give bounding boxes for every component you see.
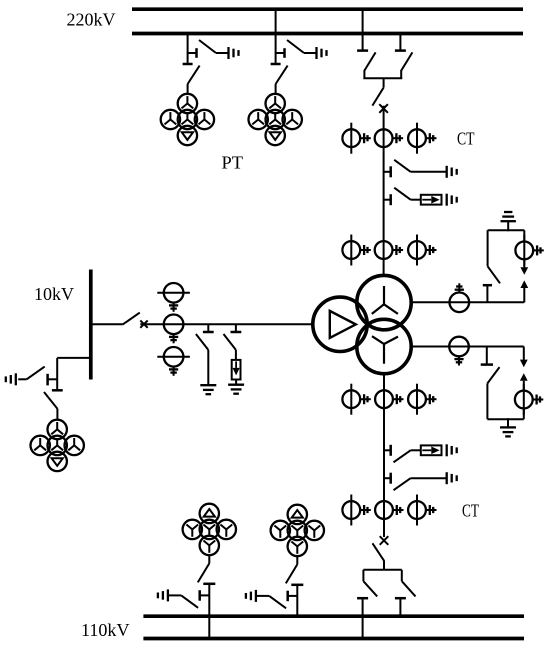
label CT (110kV side) bbox=[462, 501, 479, 521]
ground F3 bbox=[228, 385, 244, 394]
circuit breaker QF3 bbox=[140, 320, 147, 327]
wire gap to CT (MV) bbox=[523, 381, 525, 390]
wire ES9 to ground bbox=[168, 594, 181, 596]
current transformer CT1b bbox=[375, 129, 403, 147]
wire QS6 to junction bbox=[383, 560, 385, 570]
disconnector QS9 blade bbox=[198, 563, 210, 582]
wire PT1 drop from bus W2 bbox=[187, 34, 189, 65]
protective gap upper arrow bbox=[520, 267, 528, 275]
transformer T1 MV wye symbol bbox=[372, 336, 398, 364]
current transformer CT3b bbox=[375, 390, 403, 408]
surge arrester F2 bbox=[421, 445, 442, 455]
wire 110kV feeder main bbox=[383, 374, 385, 537]
wire PT2 drop from bus W1 bbox=[275, 9, 277, 64]
wire ES3 to ground bbox=[411, 171, 447, 173]
earthing switch ES4 contact bbox=[384, 194, 391, 205]
ground ES7 bbox=[447, 444, 457, 456]
voltage transformer PT4 bbox=[271, 505, 324, 556]
transformer T1 HV wye symbol bbox=[372, 286, 398, 314]
bus 220kV W1 bbox=[132, 7, 523, 11]
wire PT4 stem bbox=[296, 556, 298, 564]
transformer T1 LV winding circle bbox=[313, 297, 367, 351]
current transformer CT5b bbox=[164, 315, 184, 344]
wire loop top (HV neutral) bbox=[488, 229, 525, 231]
wire PT4 to bus W3 bbox=[296, 585, 298, 617]
current transformer CT4a bbox=[342, 495, 370, 526]
earthing switch ES1 blade bbox=[199, 40, 216, 53]
current transformer CT3c bbox=[408, 384, 436, 415]
svg-text:110kV: 110kV bbox=[81, 620, 130, 640]
earthing switch ES13 blade bbox=[27, 367, 45, 380]
earthing switch ES9 blade bbox=[181, 595, 198, 607]
ground ES9 bbox=[158, 589, 168, 601]
disconnector QS5 blade bbox=[372, 88, 383, 106]
svg-text:10kV: 10kV bbox=[34, 284, 74, 304]
ground HV neutral bbox=[501, 212, 516, 231]
wire QS3 to junction bbox=[363, 70, 365, 79]
transformer T1 HV winding circle bbox=[357, 275, 411, 329]
disconnector QS3 blade bbox=[364, 52, 375, 70]
svg-text:CT: CT bbox=[457, 129, 475, 149]
bus 110kV W3 bbox=[143, 614, 524, 618]
disconnector QS9 contact bar bbox=[203, 583, 215, 586]
earthing switch ES11 contact bbox=[203, 324, 214, 332]
surge arrester F1 bbox=[421, 195, 442, 205]
disconnector QS8 contact bar bbox=[395, 597, 406, 600]
svg-text:CT: CT bbox=[462, 501, 479, 521]
neutral CT (HV) bbox=[450, 283, 470, 312]
wire loop right upper bbox=[523, 230, 525, 241]
wire MV neutral bbox=[411, 346, 524, 348]
disconnector QS8 blade bbox=[402, 581, 416, 596]
earthing switch ES10 blade bbox=[269, 596, 286, 608]
wire HV neutral bbox=[411, 301, 524, 303]
wire QS1 to PT1 bbox=[187, 84, 189, 94]
disconnector QS1 blade bbox=[188, 66, 200, 84]
neutral CT (MV) bbox=[449, 337, 469, 366]
disconnector QS10 contact bar bbox=[291, 584, 303, 587]
bus 110kV W4 bbox=[143, 637, 524, 641]
wire stub to bus W3 bbox=[399, 598, 401, 616]
voltage transformer PT5 bbox=[31, 420, 84, 471]
wire junction bar bbox=[363, 77, 402, 79]
wire PT3 stem bbox=[208, 555, 210, 563]
earthing switch ES3 contact bbox=[384, 166, 391, 177]
current transformer CT2c bbox=[408, 235, 436, 266]
transformer T1 MV winding circle bbox=[357, 319, 411, 373]
earthing switch ES11 blade bbox=[196, 334, 208, 350]
wire junction bar (110kV) bbox=[363, 569, 401, 571]
wire PT3 to buses bbox=[208, 584, 210, 639]
disconnector QS3 contact bar bbox=[357, 49, 368, 52]
label PT bbox=[222, 153, 244, 173]
wire stub from bus W2 bbox=[399, 34, 401, 51]
disconnector QS12 blade bbox=[44, 392, 57, 409]
earthing switch ES6 blade bbox=[487, 367, 499, 383]
wire loop left (HV neutral) bbox=[487, 230, 489, 266]
wire loop left (MV neutral) bbox=[486, 383, 488, 419]
disconnector QS4 contact bar bbox=[395, 49, 406, 52]
wire ES7 to arrester bbox=[411, 449, 421, 451]
earthing switch ES12 contact bbox=[231, 324, 242, 332]
current transformer CT4b bbox=[375, 501, 403, 519]
wire ES4 to arrester bbox=[411, 199, 421, 201]
disconnector QS7 contact bar bbox=[357, 597, 368, 600]
current transformer CT2b bbox=[375, 241, 403, 259]
svg-text:PT: PT bbox=[222, 153, 244, 173]
disconnector QS2 contact bar bbox=[271, 63, 281, 66]
current transformer CT3a bbox=[342, 384, 370, 415]
ground MV neutral bbox=[500, 418, 516, 436]
ground ES3 bbox=[447, 166, 457, 178]
wire 10kV main bbox=[140, 323, 313, 325]
wire CT to loop bottom (MV) bbox=[523, 409, 525, 419]
circuit breaker QF2 bbox=[380, 536, 389, 545]
protective gap lower arrow bbox=[520, 280, 528, 288]
ground ES10 bbox=[246, 590, 256, 602]
earthing switch ES8 blade bbox=[394, 478, 411, 490]
wire ES11 to ground bbox=[207, 350, 209, 385]
label CT (220kV side) bbox=[457, 129, 475, 149]
current transformer CT1a bbox=[342, 123, 370, 154]
voltage transformer PT3 bbox=[183, 504, 236, 555]
wire bus W5 to QS11 bbox=[91, 323, 123, 325]
gap CT (MV neutral) bbox=[515, 384, 543, 415]
protective gap lower arrow (MV) bbox=[520, 373, 528, 381]
protective gap upper arrow (MV) bbox=[520, 360, 528, 368]
disconnector QS11 blade bbox=[123, 313, 140, 325]
wire ES13 to ground bbox=[18, 378, 26, 380]
disconnector QS4 blade bbox=[401, 52, 412, 70]
ground ES4 bbox=[447, 194, 457, 206]
disconnector QS1 contact bar bbox=[183, 63, 193, 66]
wire ES12 to arrester bbox=[235, 350, 237, 360]
current transformer CT5c bbox=[157, 347, 190, 376]
earthing switch ES9 contact bbox=[200, 590, 210, 601]
wire QS4 to junction bbox=[400, 70, 402, 79]
ground ES11 bbox=[200, 385, 216, 394]
disconnector QS6 blade bbox=[373, 543, 385, 560]
transformer T1 LV delta symbol bbox=[330, 311, 356, 338]
earthing switch ES7 contact bbox=[384, 445, 391, 456]
earthing switch ES10 contact bbox=[288, 591, 298, 602]
wire ES2 to ground bbox=[304, 52, 316, 54]
current transformer CT1c bbox=[408, 123, 436, 154]
earthing switch ES4 blade bbox=[394, 188, 410, 200]
current transformer CT2a bbox=[342, 235, 370, 266]
wire QS2 to PT2 bbox=[275, 84, 277, 94]
gap CT (HV neutral) bbox=[515, 235, 543, 266]
current transformer CT4c bbox=[408, 495, 436, 526]
label 10kV bbox=[34, 284, 74, 304]
bus 220kV W2 bbox=[132, 32, 523, 36]
disconnector QS10 blade bbox=[286, 564, 298, 583]
ground ES13 bbox=[6, 373, 16, 385]
wire junction to QS8 bbox=[401, 570, 403, 581]
wire bus W5 left branch bbox=[57, 358, 91, 390]
wire ES1 to ground bbox=[216, 52, 228, 54]
wire junction to QS5 bbox=[383, 78, 385, 87]
wire loop bottom (MV neutral) bbox=[487, 418, 523, 420]
voltage transformer PT1 bbox=[161, 94, 214, 145]
wire arrester to ground bbox=[235, 380, 237, 385]
earthing switch ES13 contact bbox=[48, 374, 58, 386]
earthing switch ES3 blade bbox=[394, 160, 410, 172]
ground ES8 bbox=[447, 472, 457, 484]
earthing switch ES6 contact bbox=[481, 347, 493, 365]
voltage transformer PT2 bbox=[249, 94, 302, 145]
earthing switch ES7 blade bbox=[394, 450, 411, 462]
wire junction to QS7 bbox=[362, 570, 364, 581]
wire 220kV feeder main bbox=[383, 106, 385, 276]
circuit breaker QF1 bbox=[379, 104, 388, 113]
wire gap to neutral bbox=[523, 288, 525, 302]
earthing switch ES2 blade bbox=[287, 40, 304, 53]
label 110kV bbox=[81, 620, 130, 640]
wire CT to gap bbox=[523, 260, 525, 268]
earthing switch ES12 blade bbox=[224, 334, 236, 350]
bus 10kV W5 bbox=[89, 270, 93, 380]
ground ES2 bbox=[317, 47, 327, 59]
disconnector QS12 contact bar bbox=[52, 389, 63, 392]
svg-text:220kV: 220kV bbox=[67, 10, 116, 30]
label 220kV bbox=[67, 10, 116, 30]
wire ES10 to ground bbox=[256, 595, 269, 597]
wire stub to bus W4 bbox=[362, 598, 364, 638]
wire neutral to gap (MV) bbox=[523, 347, 525, 360]
earthing switch ES8 contact bbox=[384, 473, 391, 484]
disconnector QS2 blade bbox=[276, 66, 288, 84]
earthing switch ES5 contact bbox=[483, 285, 492, 302]
surge arrester F3 bbox=[232, 360, 241, 380]
wire QS12 to PT5 bbox=[56, 409, 58, 420]
earthing switch ES5 blade bbox=[488, 266, 500, 283]
current transformer CT5a bbox=[157, 283, 190, 312]
wire ES8 to ground bbox=[411, 477, 447, 479]
ground ES1 bbox=[229, 47, 239, 59]
wire stub from bus W1 bbox=[362, 9, 364, 50]
earthing switch ES2 contact bbox=[276, 48, 285, 58]
disconnector QS7 blade bbox=[363, 581, 377, 596]
earthing switch ES1 contact bbox=[188, 48, 197, 58]
